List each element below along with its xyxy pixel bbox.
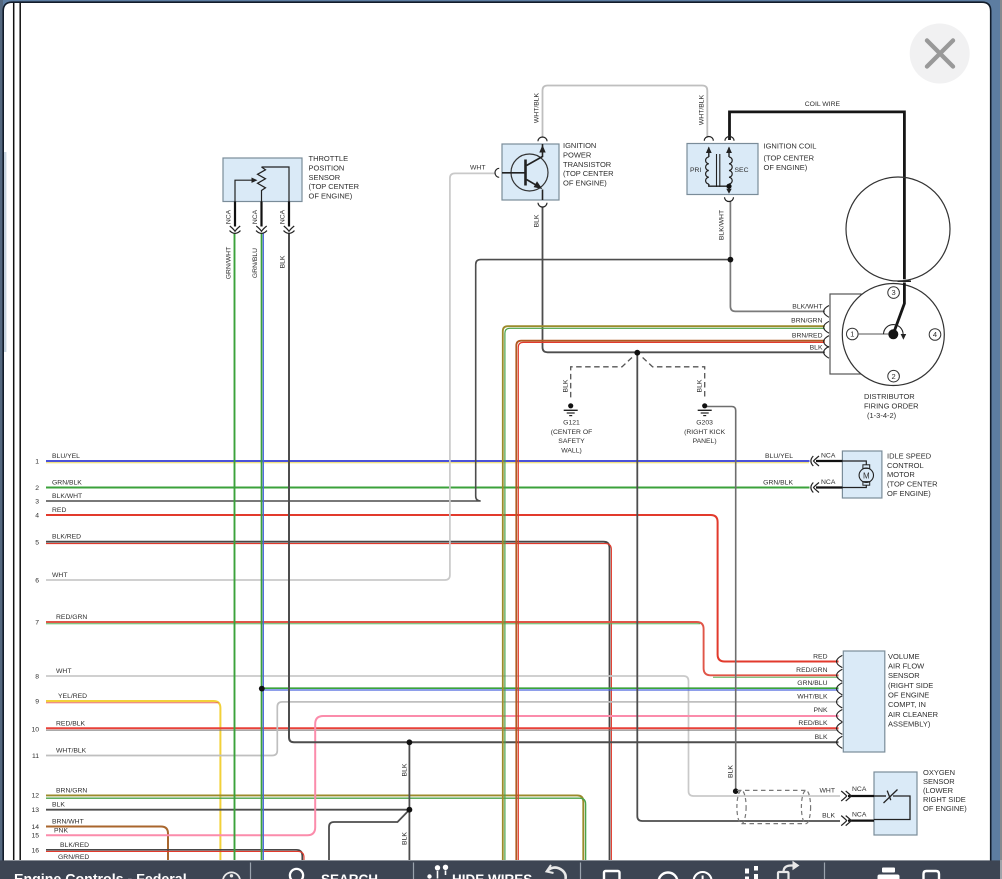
wire BLK branch junction to row13 area xyxy=(408,742,410,860)
rotor wire into distributor xyxy=(894,283,905,333)
svg-text:7: 7 xyxy=(35,619,39,626)
oxygen wire labels xyxy=(820,788,836,820)
wire row15 PNK to VAF xyxy=(46,716,839,835)
svg-text:8: 8 xyxy=(35,673,39,680)
TPS pin2 connector xyxy=(256,226,267,233)
svg-text:GRN/BLK: GRN/BLK xyxy=(52,480,82,487)
toolbar divider 3 xyxy=(580,863,582,879)
coil core lines xyxy=(716,154,718,187)
svg-text:THROTTLE: THROTTLE xyxy=(309,154,349,163)
svg-text:BLK: BLK xyxy=(52,802,65,809)
ignition power transistor box xyxy=(502,144,559,200)
toolbar divider 1 xyxy=(250,863,252,879)
wire row12 BRN/GRN down xyxy=(46,795,586,860)
svg-text:OF ENGINE): OF ENGINE) xyxy=(764,163,808,172)
svg-text:SEC: SEC xyxy=(735,167,749,174)
svg-text:2: 2 xyxy=(892,372,896,381)
component text IDLE SPEED CONTROL MOTOR xyxy=(887,451,938,498)
svg-text:FIRING ORDER: FIRING ORDER xyxy=(864,402,919,411)
wire row3 BLK/WHT to coil junction xyxy=(46,260,730,501)
svg-text:(CENTER OF: (CENTER OF xyxy=(551,429,593,436)
svg-text:TRANSISTOR: TRANSISTOR xyxy=(563,160,612,169)
wire GRN/BLU from TPS pin2 down with branch to VAF xyxy=(262,233,839,860)
svg-text:G203: G203 xyxy=(696,419,713,426)
svg-text:MOTOR: MOTOR xyxy=(887,470,915,479)
left scrollbar thumb xyxy=(4,152,6,352)
wire row10 RED/BLK to VAF xyxy=(46,728,839,730)
wire BLK/WHT coil to distributor xyxy=(730,202,824,312)
ground G121 symbol xyxy=(564,403,578,415)
coil bottom edge connector arc xyxy=(725,197,734,201)
component text DISTRIBUTOR FIRING ORDER xyxy=(864,392,919,420)
wire BLK center vertical to oxygen xyxy=(637,353,840,821)
toolbar save icon xyxy=(924,871,940,879)
svg-text:BLK/RED: BLK/RED xyxy=(52,534,81,541)
coil top edge connector arc PRI xyxy=(704,137,713,141)
transistor top edge connector arc xyxy=(538,137,547,141)
svg-text:IGNITION: IGNITION xyxy=(563,141,596,150)
component text G121 xyxy=(551,419,593,454)
distributor body circle xyxy=(842,284,944,386)
svg-text:NCA: NCA xyxy=(821,479,836,486)
svg-text:PNK: PNK xyxy=(814,707,828,714)
svg-text:14: 14 xyxy=(31,824,39,831)
svg-text:BLU/YEL: BLU/YEL xyxy=(52,453,80,460)
svg-text:BLK: BLK xyxy=(815,734,828,741)
svg-text:RED/BLK: RED/BLK xyxy=(798,720,828,727)
svg-text:BLK/WHT: BLK/WHT xyxy=(52,493,82,500)
svg-text:HIDE WIRES: HIDE WIRES xyxy=(452,872,532,879)
svg-text:COIL WIRE: COIL WIRE xyxy=(805,101,841,108)
distributor wire labels xyxy=(791,304,823,352)
distributor terminal 1 xyxy=(847,328,859,340)
wire row2 GRN/BLK xyxy=(46,487,810,489)
transistor emitter lead with arrow xyxy=(527,180,537,186)
svg-text:POSITION: POSITION xyxy=(309,163,345,172)
svg-text:WHT: WHT xyxy=(56,668,71,675)
svg-text:RIGHT SIDE: RIGHT SIDE xyxy=(923,795,966,804)
svg-text:BLK/WHT: BLK/WHT xyxy=(792,304,822,311)
svg-text:BRN/GRN: BRN/GRN xyxy=(791,318,822,325)
motor pin2 lead black xyxy=(816,486,842,488)
svg-text:4: 4 xyxy=(933,330,937,339)
svg-text:OF ENGINE): OF ENGINE) xyxy=(563,179,607,188)
motor M1 internals xyxy=(842,461,873,488)
VAF pin5 bracket xyxy=(837,710,843,722)
oxygen sensor cell symbol xyxy=(874,790,910,820)
svg-text:POWER: POWER xyxy=(563,150,592,159)
ground G203 dashed lead xyxy=(643,358,705,400)
distributor rotation arc xyxy=(884,325,904,335)
node junction BLK at row13 xyxy=(407,807,413,813)
svg-text:(RIGHT KICK: (RIGHT KICK xyxy=(684,429,726,436)
svg-text:IDLE SPEED: IDLE SPEED xyxy=(887,451,932,460)
svg-text:1: 1 xyxy=(35,458,39,465)
svg-text:ASSEMBLY): ASSEMBLY) xyxy=(888,719,931,728)
svg-text:OXYGEN: OXYGEN xyxy=(923,768,955,777)
distributor terminal 2 xyxy=(888,370,900,382)
svg-text:SENSOR: SENSOR xyxy=(888,671,920,680)
svg-text:BLK: BLK xyxy=(822,813,835,820)
left app strip xyxy=(0,0,3,879)
svg-text:NCA: NCA xyxy=(226,209,233,224)
VAF pin1 bracket xyxy=(837,655,843,667)
transistor bottom edge connector arc xyxy=(538,203,547,207)
motor pin2 connector xyxy=(811,483,819,493)
node junction coil BLK/WHT branch xyxy=(728,257,734,263)
svg-text:NCA: NCA xyxy=(821,453,836,460)
svg-text:YEL/RED: YEL/RED xyxy=(58,693,87,700)
toolbar undo icon xyxy=(547,865,566,879)
VAF pin2 bracket xyxy=(837,669,843,681)
node junction BLK at VAF row xyxy=(407,739,413,745)
coil top edge connector arc SEC xyxy=(725,137,734,141)
distributor connector pin2 bracket xyxy=(824,321,829,333)
svg-text:OF ENGINE): OF ENGINE) xyxy=(309,192,353,201)
wire row9 YEL/RED down xyxy=(46,701,220,860)
svg-text:10: 10 xyxy=(31,726,39,733)
wire row5 BLK/RED down xyxy=(46,542,611,860)
svg-text:BLK: BLK xyxy=(401,763,408,776)
svg-text:SAFETY: SAFETY xyxy=(558,438,585,445)
close button xyxy=(910,24,970,84)
svg-text:SEARCH: SEARCH xyxy=(321,872,378,879)
svg-text:BLK/WHT: BLK/WHT xyxy=(719,210,726,240)
VAF pin4 bracket xyxy=(837,696,843,708)
distributor terminal 4 xyxy=(929,329,941,341)
toolbar clock icon xyxy=(694,872,712,879)
svg-text:BRN/WHT: BRN/WHT xyxy=(52,819,84,826)
wire BLK diagonal branch to bottom left xyxy=(329,810,409,860)
right side wire labels at motor xyxy=(763,453,793,487)
svg-text:(TOP CENTER: (TOP CENTER xyxy=(887,480,938,489)
toolbar divider 4 xyxy=(824,863,826,879)
TPS pin1 connector xyxy=(230,226,241,233)
svg-text:11: 11 xyxy=(32,753,39,760)
transistor collector lead xyxy=(527,144,543,166)
svg-text:WHT/BLK: WHT/BLK xyxy=(797,694,828,701)
svg-text:(1-3-4-2): (1-3-4-2) xyxy=(867,411,897,420)
node junction BLK ground split xyxy=(634,350,640,356)
svg-text:WHT/BLK: WHT/BLK xyxy=(534,92,541,123)
svg-text:PANEL): PANEL) xyxy=(693,438,717,445)
svg-text:CONTROL: CONTROL xyxy=(887,461,924,470)
toolbar print icon xyxy=(878,868,900,879)
svg-text:SENSOR: SENSOR xyxy=(309,173,341,182)
component text OXYGEN SENSOR xyxy=(923,768,967,813)
svg-text:BLK: BLK xyxy=(727,765,734,778)
svg-text:13: 13 xyxy=(31,807,39,814)
svg-text:(TOP CENTER: (TOP CENTER xyxy=(563,169,614,178)
wire BRN/GRN distributor down xyxy=(503,326,825,860)
left wire name labels xyxy=(52,453,89,861)
wire BLK transistor emitter to distributor row xyxy=(543,207,825,353)
TPS top link to pin3 xyxy=(262,167,290,202)
svg-text:OF ENGINE): OF ENGINE) xyxy=(923,804,967,813)
component text G203 xyxy=(684,419,726,445)
wire BRN/RED distributor down xyxy=(516,341,825,860)
wire row13 BLK to junction xyxy=(46,809,409,811)
svg-text:5: 5 xyxy=(35,539,39,546)
svg-text:2: 2 xyxy=(35,485,39,492)
svg-text:NCA: NCA xyxy=(280,209,287,224)
svg-text:AIR CLEANER: AIR CLEANER xyxy=(888,710,939,719)
svg-text:WALL): WALL) xyxy=(561,448,582,455)
svg-text:RED: RED xyxy=(52,507,66,514)
distributor terminal 3 xyxy=(888,287,900,299)
svg-text:GRN/RED: GRN/RED xyxy=(58,854,89,861)
component text THROTTLE POSITION SENSOR xyxy=(309,154,360,201)
svg-text:OF ENGINE: OF ENGINE xyxy=(888,691,929,700)
svg-text:(TOP CENTER: (TOP CENTER xyxy=(764,154,815,163)
row numbers xyxy=(31,458,39,854)
toolbar info icon xyxy=(223,872,240,879)
svg-text:BLU/YEL: BLU/YEL xyxy=(765,453,793,460)
throttle position sensor box xyxy=(223,158,302,202)
svg-text:OF ENGINE): OF ENGINE) xyxy=(887,489,931,498)
distributor terminal1 lead xyxy=(858,333,888,335)
svg-text:(TOP CENTER: (TOP CENTER xyxy=(309,182,360,191)
right scrollbar sliver over toolbar xyxy=(1000,860,1002,879)
svg-text:3: 3 xyxy=(35,498,39,505)
svg-text:WHT/BLK: WHT/BLK xyxy=(56,748,87,755)
rotor gap tick xyxy=(898,280,912,282)
svg-text:NCA: NCA xyxy=(852,812,867,819)
distributor connector pin1 bracket xyxy=(824,306,829,318)
TPS pin1 lead xyxy=(234,202,236,227)
svg-text:BRN/GRN: BRN/GRN xyxy=(56,787,87,794)
transistor base bar xyxy=(524,160,527,186)
wire row1 BLU/YEL xyxy=(46,461,810,463)
svg-text:PNK: PNK xyxy=(54,827,68,834)
ignition coil box xyxy=(687,144,758,195)
svg-text:15: 15 xyxy=(31,833,39,840)
diagram sheet left border line 1 xyxy=(13,3,15,860)
toolbar share icon xyxy=(778,861,800,879)
toolbar xyxy=(0,860,1002,879)
svg-text:(RIGHT SIDE: (RIGHT SIDE xyxy=(888,681,933,690)
motor pin1 connector xyxy=(811,456,819,466)
diagram sheet left border line 2 xyxy=(19,3,21,860)
TPS pin3 lead xyxy=(288,202,290,227)
svg-text:GRN/BLU: GRN/BLU xyxy=(797,680,827,687)
svg-text:AIR FLOW: AIR FLOW xyxy=(888,662,925,671)
idle speed control motor box xyxy=(842,451,882,498)
svg-text:RED/GRN: RED/GRN xyxy=(56,614,87,621)
shielded cable dashed bottom line xyxy=(742,823,807,825)
toolbar search icon xyxy=(290,869,307,879)
distributor connector pin4 bracket xyxy=(824,346,829,358)
coil PRI winding xyxy=(706,157,709,184)
shielded cable dashed right cap xyxy=(801,790,810,823)
motor pin1 lead black xyxy=(816,460,842,462)
svg-text:16: 16 xyxy=(31,848,39,855)
svg-text:VOLUME: VOLUME xyxy=(888,652,920,661)
coil SEC winding xyxy=(729,157,732,184)
toolbar zoom circle icon xyxy=(659,873,678,879)
svg-text:3: 3 xyxy=(892,288,896,297)
svg-text:BLK: BLK xyxy=(280,255,287,268)
svg-text:NCA: NCA xyxy=(852,786,867,793)
ground G121 dashed lead xyxy=(571,358,632,400)
svg-text:WHT/BLK: WHT/BLK xyxy=(699,94,706,125)
svg-text:SENSOR: SENSOR xyxy=(923,777,955,786)
TPS wiper arrow xyxy=(235,180,253,201)
wire row14 BRN/WHT down xyxy=(46,827,168,861)
coil bottom exit arrow xyxy=(726,189,731,194)
svg-text:WHT: WHT xyxy=(820,788,835,795)
svg-text:BRN/RED: BRN/RED xyxy=(792,333,823,340)
wire row7 RED/GRN to VAF xyxy=(46,622,839,677)
svg-text:G121: G121 xyxy=(563,419,580,426)
svg-text:M: M xyxy=(863,471,870,480)
VAF wire labels xyxy=(796,654,828,741)
svg-text:WHT: WHT xyxy=(470,165,485,172)
transistor left edge connector arc WHT xyxy=(495,168,499,177)
distributor connector housing xyxy=(830,294,861,374)
svg-text:BLK/RED: BLK/RED xyxy=(60,842,89,849)
component text VOLUME AIR FLOW SENSOR xyxy=(888,652,939,728)
wire BLK G203 drain to shield xyxy=(707,407,736,792)
svg-text:WHT: WHT xyxy=(52,572,67,579)
svg-text:BLK: BLK xyxy=(810,345,823,352)
distributor connector pin3 bracket xyxy=(824,336,829,348)
svg-text:RED: RED xyxy=(813,654,827,661)
wire row16 BLK/RED down xyxy=(46,850,304,860)
svg-text:BLK: BLK xyxy=(563,379,570,392)
svg-text:6: 6 xyxy=(35,577,39,584)
TPS pin3 connector xyxy=(284,226,295,233)
coil PRI top lead arrow xyxy=(708,148,710,158)
toolbar fit-page icon xyxy=(604,871,620,879)
svg-text:RED/BLK: RED/BLK xyxy=(56,720,86,727)
svg-text:PRI: PRI xyxy=(690,167,701,174)
component text IGNITION COIL xyxy=(764,142,817,172)
VAF pin6 bracket xyxy=(837,722,843,734)
wire BLK from TPS pin3 to VAF xyxy=(289,233,839,742)
transistor emitter exit xyxy=(542,190,544,201)
svg-text:IGNITION COIL: IGNITION COIL xyxy=(764,142,817,151)
svg-text:12: 12 xyxy=(31,793,39,800)
transistor collector arrow up xyxy=(539,145,545,153)
toolbar compare icon xyxy=(747,866,756,879)
oxygen WHT pin lead black xyxy=(848,795,874,797)
wire row6 WHT to transistor base xyxy=(46,173,496,580)
oxygen WHT pin connector xyxy=(841,791,851,801)
svg-text:BLK: BLK xyxy=(401,832,408,845)
svg-text:GRN/WHT: GRN/WHT xyxy=(226,247,233,279)
svg-text:GRN/BLU: GRN/BLU xyxy=(252,248,259,278)
oxygen BLK pin connector xyxy=(841,816,851,826)
wire row8 WHT to oxygen sensor xyxy=(46,676,840,796)
component text IGNITION POWER TRANSISTOR xyxy=(563,141,614,188)
coil bottom link xyxy=(709,184,729,192)
node junction GRN/BLU branch xyxy=(259,686,265,692)
TPS pin2 lead xyxy=(260,202,262,227)
transistor base lead WHT xyxy=(502,172,525,174)
coil bottom junction dot xyxy=(726,184,731,189)
svg-text:COMPT, IN: COMPT, IN xyxy=(888,700,926,709)
svg-text:(LOWER: (LOWER xyxy=(923,786,954,795)
distributor rotor center xyxy=(888,329,898,339)
svg-text:GRN/BLK: GRN/BLK xyxy=(763,480,793,487)
transistor Q1 circle xyxy=(511,154,548,191)
distributor cap upper circle xyxy=(846,177,950,281)
wire GRN/WHT from TPS pin1 down xyxy=(234,233,236,860)
oxygen sensor box xyxy=(874,772,917,835)
volume air flow sensor box xyxy=(843,651,885,752)
svg-text:4: 4 xyxy=(35,512,39,519)
oxygen BLK pin lead black xyxy=(848,819,874,821)
shielded cable junction dot xyxy=(733,788,739,794)
wire WHT/BLK transistor collector to coil xyxy=(543,86,708,138)
VAF pin3 bracket xyxy=(837,683,843,695)
ground G203 symbol xyxy=(698,403,712,415)
VAF pin7 bracket xyxy=(837,736,843,748)
wire row11 WHT/BLK to VAF xyxy=(46,702,839,756)
toolbar hide-wires icon xyxy=(428,865,448,878)
wire coil thick secondary COIL WIRE xyxy=(730,112,905,279)
coil SEC top lead arrow xyxy=(728,148,730,158)
svg-text:BLK: BLK xyxy=(697,379,704,392)
svg-text:RED/GRN: RED/GRN xyxy=(796,667,827,674)
svg-text:NCA: NCA xyxy=(252,209,259,224)
shielded cable dashed left cap xyxy=(737,790,746,823)
shielded cable dashed top line xyxy=(737,789,806,791)
TPS potentiometer resistor xyxy=(258,167,266,202)
toolbar divider 2 xyxy=(413,863,415,879)
svg-text:9: 9 xyxy=(35,698,39,705)
right browser scrollbar sliver xyxy=(1000,0,1002,879)
svg-text:BLK: BLK xyxy=(534,214,541,227)
svg-text:1: 1 xyxy=(850,330,854,339)
wire row4 RED to VAF xyxy=(46,515,839,662)
svg-text:DISTRIBUTOR: DISTRIBUTOR xyxy=(864,392,915,401)
svg-text:Engine Controls - Federal: Engine Controls - Federal xyxy=(14,872,187,879)
